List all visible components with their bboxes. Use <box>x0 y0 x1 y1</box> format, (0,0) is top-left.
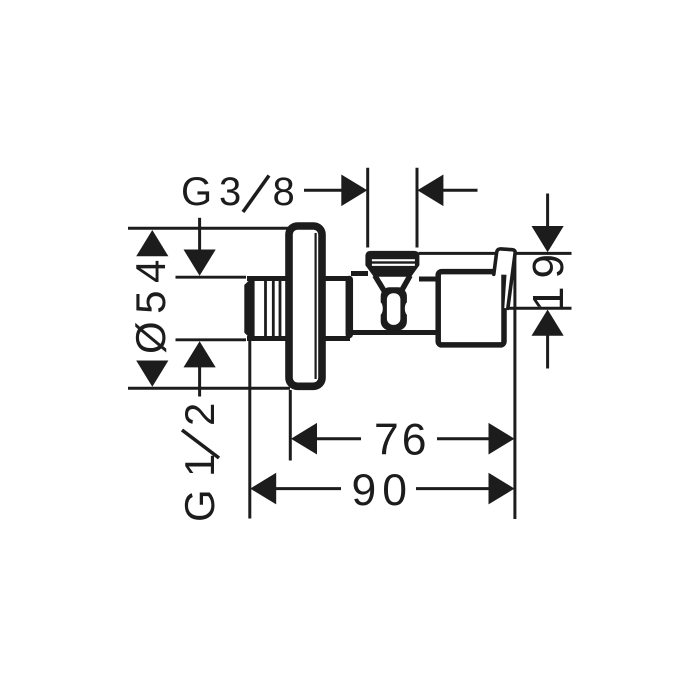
handle cap <box>365 251 419 277</box>
handle cap stripe 2 <box>372 264 415 266</box>
G 1/2 dimension upper line <box>198 218 201 252</box>
svg-text:19: 19 <box>524 246 573 311</box>
pipe bottom extension line <box>176 338 247 341</box>
svg-text:G: G <box>181 170 212 214</box>
arrow down to pipe top for G 1/2 <box>184 250 216 276</box>
joint step bar between pipe and body <box>346 280 354 335</box>
escutcheon plate <box>289 226 322 386</box>
arrow left for 90 <box>250 473 276 505</box>
label 90 <box>352 466 414 515</box>
arrow up to pipe bottom for G 1/2 <box>184 341 216 367</box>
label G 3/8 text <box>181 170 295 214</box>
body top edge left segment <box>351 271 368 276</box>
19 dimension upper line <box>546 194 549 230</box>
label 19 rotated <box>524 246 573 311</box>
outlet block <box>438 272 504 345</box>
top extension line of diameter 54 <box>128 227 290 230</box>
thread line 2 <box>272 281 275 337</box>
spout lever outline <box>494 249 515 308</box>
label 76 <box>374 416 430 465</box>
76 line right segment <box>437 437 490 440</box>
spout lever fill <box>494 249 515 309</box>
threaded pipe bottom edge <box>247 336 350 341</box>
bonnet neck right slant <box>401 276 410 292</box>
tail line right of G3/8 arrow <box>443 189 478 192</box>
arrow up for diameter 54 <box>136 230 168 256</box>
slash of G 1/2 rotated <box>182 430 219 458</box>
svg-text:Ø54: Ø54 <box>127 252 174 354</box>
arrow left for 76 <box>291 423 317 455</box>
arrow up for 19 <box>532 310 564 336</box>
handle cap stripe 1 <box>372 259 415 261</box>
19 dimension bottom extension line <box>509 307 572 310</box>
body top edge right segment <box>419 277 438 282</box>
arrow down for diameter 54 <box>136 361 168 387</box>
svg-text:3: 3 <box>219 170 241 214</box>
label G 1/2 rotated <box>176 403 223 522</box>
capsule waist notch left <box>376 302 382 315</box>
arrow left-pointing at right extension of G3/8 <box>417 175 443 207</box>
19 dimension lower line <box>546 335 549 368</box>
valve stem capsule <box>381 287 407 330</box>
G 1/2 dimension lower line <box>198 367 201 397</box>
leader line from G 3/8 <box>304 189 342 192</box>
stem hole <box>387 293 401 325</box>
bottom extension line of diameter 54 <box>128 387 290 390</box>
thread line 3 <box>279 281 282 337</box>
76 line left segment <box>316 437 361 440</box>
escutcheon inner highlight line <box>315 233 317 379</box>
bonnet neck left slant <box>375 276 385 292</box>
capsule waist notch right <box>405 302 411 315</box>
arrow right-pointing at left extension of G3/8 <box>341 175 367 207</box>
arrow right for 90 <box>489 473 515 505</box>
svg-text:90: 90 <box>352 466 414 515</box>
pipe chamfered end face bar <box>244 277 254 340</box>
19 dimension top extension line <box>419 252 572 255</box>
extension line left of G3/8 dimension <box>366 168 369 248</box>
right extension line for 76 and 90 <box>513 253 516 519</box>
slash of G 3/8 <box>243 176 269 213</box>
svg-text:76: 76 <box>374 416 430 465</box>
thread line 1 <box>264 281 267 337</box>
pipe top extension line <box>176 276 247 279</box>
90 line left segment <box>276 487 342 490</box>
body bottom edge <box>351 330 438 335</box>
arrow right for 76 <box>489 423 515 455</box>
svg-text:8: 8 <box>273 170 295 214</box>
arrow down for 19 <box>532 226 564 252</box>
left extension line for 90 <box>248 341 251 519</box>
extension line right of G3/8 dimension <box>416 168 419 248</box>
extension line below escutcheon for 76 <box>289 390 292 461</box>
90 line right segment <box>416 487 490 490</box>
threaded pipe top edge <box>247 276 350 281</box>
svg-text:G: G <box>176 489 223 522</box>
svg-text:2: 2 <box>176 403 223 426</box>
label diameter 54 rotated <box>127 252 174 354</box>
